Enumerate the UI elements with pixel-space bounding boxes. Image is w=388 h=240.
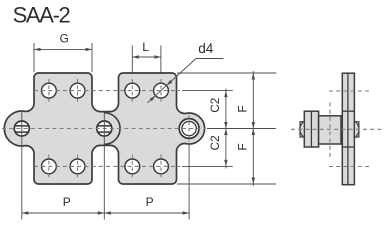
extension line tab top (F) [177,72,276,74]
hole vertical crosshairs [49,79,161,178]
side view hole line bottom [329,166,371,168]
chain plate silhouette (front view) [4,73,204,184]
pin 2 circle [97,121,112,136]
svg-text:C2: C2 [208,135,222,150]
svg-text:F: F [236,143,250,150]
svg-text:G: G [60,32,69,46]
leader d4 [147,59,223,103]
roller inner circle [182,121,196,135]
plate edge lines across strip [342,110,354,112]
svg-text:d4: d4 [198,41,214,56]
dimension F pair [252,71,255,186]
attachment holes top row [42,83,57,98]
centerline hole row bottom [34,165,180,167]
P extension line pin2 [103,112,105,219]
link-2 plate end circle around pin 2 [104,113,120,145]
dimension L [132,46,161,73]
centerline hole row top [34,90,180,92]
left plates pair [304,111,318,147]
extension line hole bottom (C2) [182,165,233,167]
dimension C2 pair [224,89,227,169]
side view horizontal centerline [291,128,383,130]
P extension line pin3 [188,145,190,220]
extension line tab bottom (F) [177,183,276,185]
side view vertical centerline [329,103,331,158]
svg-text:F: F [236,105,250,112]
svg-text:SAA-2: SAA-2 [13,2,71,27]
roller outer circle [179,119,199,139]
svg-text:C2: C2 [208,98,222,113]
dimension P P [22,211,189,214]
left plate divider [310,111,312,147]
side view hole line top [329,90,371,92]
roller vertical crosshair [188,115,190,142]
svg-text:P: P [63,195,71,209]
right pin end dome [356,122,359,136]
left pin end dome [300,122,303,136]
left pin end cap [300,122,304,137]
P extension line pin1 [21,111,23,220]
pin 2 chords [98,126,111,132]
svg-text:P: P [146,195,154,209]
svg-text:L: L [142,40,149,54]
attachment plates (tall strip) [342,73,354,185]
pin 1 chords [15,126,28,132]
pin 1 circle [14,121,29,136]
dimension G [34,43,92,72]
right pin end cap [354,122,359,137]
centerline main [2,128,206,130]
attachment plate divider [347,73,349,185]
roller block [319,116,341,144]
extension line hole top (C2) [182,90,233,92]
extension line center [207,128,276,130]
attachment holes bottom row [42,159,57,174]
